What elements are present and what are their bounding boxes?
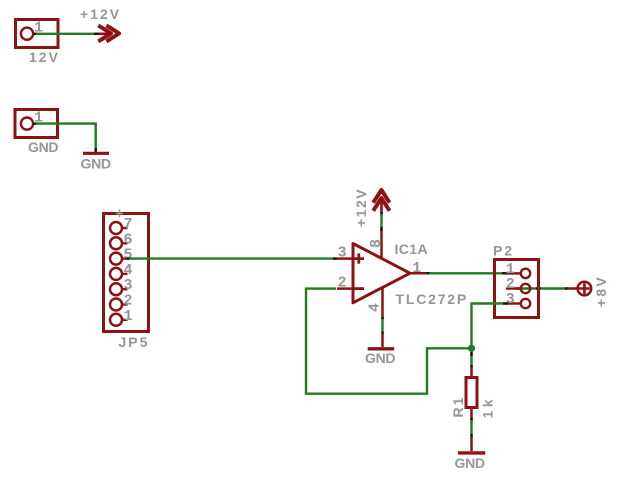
wire net OUT (op-amp pin1 to P2 pin1): [427, 272, 506, 274]
svg-text:1: 1: [412, 260, 421, 277]
origin cross: [116, 210, 123, 218]
wire net GND (X2 to ground): [34, 122, 97, 152]
svg-text:JP5: JP5: [119, 334, 150, 350]
svg-text:+12V: +12V: [80, 6, 121, 22]
connector P2: [495, 260, 569, 318]
connector X1 (12V): [16, 20, 59, 48]
svg-text:GND: GND: [365, 350, 395, 366]
plus input marker: [354, 253, 365, 263]
ground symbol (R1): [455, 453, 486, 471]
pin 4 stub: [381, 288, 384, 319]
connector JP5: [104, 210, 149, 332]
svg-text:8: 8: [368, 239, 385, 248]
node junction: [468, 345, 475, 352]
pin 2: [521, 284, 530, 293]
wire net (JP5 pin5 to op-amp pin3): [127, 257, 338, 259]
wire net +8V (P2 pin2 to supply): [565, 287, 569, 289]
pin 3: [521, 299, 530, 308]
pin 2 pass-through wire: [518, 287, 569, 289]
pin 4: [110, 268, 122, 280]
svg-text:1: 1: [124, 308, 133, 325]
pin 1 stub: [409, 272, 429, 275]
pin 3: [110, 283, 122, 295]
minus input marker: [354, 287, 365, 290]
pin 6: [110, 237, 122, 249]
svg-text:12V: 12V: [29, 49, 60, 65]
svg-text:3: 3: [338, 244, 347, 261]
svg-text:IC1A: IC1A: [395, 241, 429, 257]
svg-text:GND: GND: [28, 139, 58, 155]
pin 1: [110, 314, 122, 326]
wire net GND (op-amp pin 4 to ground): [381, 317, 383, 347]
wire net feedback (op-amp pin2 loop to node): [306, 289, 470, 394]
svg-text:+8V: +8V: [593, 275, 609, 307]
svg-text:+12V: +12V: [353, 188, 369, 227]
wire net GND (R1 to ground): [470, 418, 472, 451]
wire net (P2 pin3 to node): [472, 302, 509, 348]
svg-text:3: 3: [506, 291, 515, 308]
wire net +12V (arrow to pin 8): [380, 212, 382, 231]
connector X2 (GND): [15, 110, 58, 138]
wire net +12V (X1 to arrow): [34, 33, 99, 35]
pin 5: [110, 253, 122, 265]
svg-text:GND: GND: [455, 455, 485, 471]
pin 7: [110, 222, 122, 234]
pin 2 stub: [337, 287, 352, 290]
op-amp IC1A: [337, 229, 429, 319]
svg-text:P2: P2: [493, 243, 514, 259]
ground symbol (op-amp): [365, 349, 395, 366]
svg-text:4: 4: [367, 303, 384, 312]
pin 2: [110, 299, 122, 311]
resistor R1: [450, 367, 496, 420]
svg-text:GND: GND: [81, 156, 111, 172]
supply +8V: [567, 275, 609, 307]
wire net (node to R1): [470, 348, 472, 369]
ground symbol (near X2): [81, 124, 111, 172]
supply +12V arrow: [80, 6, 121, 41]
svg-text:R1: R1: [450, 396, 466, 418]
pin 1: [521, 269, 530, 278]
pin 8 stub: [380, 229, 383, 259]
svg-text:TLC272P: TLC272P: [396, 291, 469, 307]
svg-text:2: 2: [338, 274, 347, 291]
pin 3 stub: [337, 257, 352, 260]
svg-text:1k: 1k: [480, 396, 496, 419]
supply +12V arrow (op-amp pin 8): [353, 188, 390, 227]
